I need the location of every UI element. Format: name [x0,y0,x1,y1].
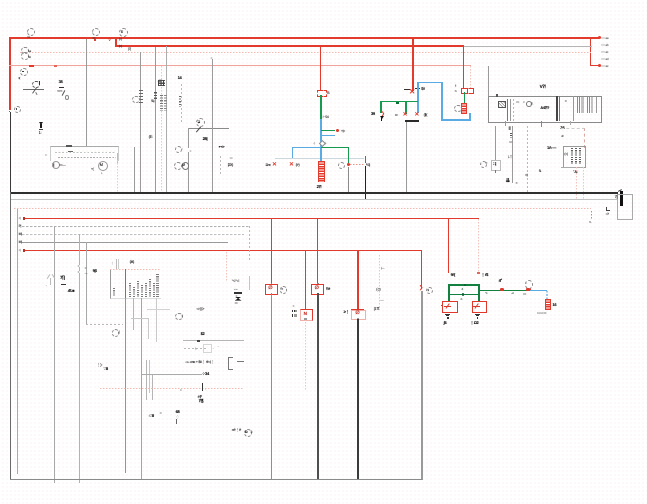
connector circle above switch [196,118,205,127]
pin list text columns [125,269,126,298]
wire: black vertical x365 crossing separator [365,166,366,200]
wire: vertical x188 upper [188,128,189,148]
fuse F1 circle [32,81,39,88]
ground below RL1 [445,314,450,315]
motor M1 circle [52,161,60,169]
cluster AE [68,289,75,293]
arrows up down on x512 [508,155,512,159]
wire: dashed vertical x181 with text [181,84,182,122]
label: 28 [203,137,208,141]
connector block 2| [491,160,501,171]
connector circle T2 [92,28,100,36]
right connector box frame [617,194,633,220]
wire: vertical x495.5 below U1 [495,126,496,160]
switch S1 line with slash [23,89,44,90]
wire: green vertical below fuse F2 [320,95,321,119]
connector circle mid [132,96,140,104]
blue rail to element [530,290,547,291]
connector circle T4 [20,68,28,76]
crossed connector X4 [414,113,419,119]
wire: vertical x212 [212,59,213,193]
wire: left border black lower part of top section [10,112,11,193]
wire: pink dashed vertical x117 [117,160,118,193]
wire: black vertical below F5 [357,318,359,319]
wire: dashed gray vertical end of P line [249,226,250,260]
label 9b [93,269,97,273]
wire: green drop x380 with arrow [380,101,382,113]
circle cluster at 178,315 [175,313,182,320]
wire: dashed corner horizontal y324 [86,324,123,325]
wire: lower left border [10,192,11,480]
node: red bowtie X at 413,92 [409,89,415,95]
label V? above ECU [540,85,546,89]
connector text box with pin list [110,269,161,299]
wire: bus A right stub top [591,37,599,38]
connector circle T1 [27,28,35,36]
gray feed line M2 [22,242,228,243]
wire: green horizontal at y147 [321,147,349,148]
label A? mid right [547,146,556,150]
wire: gray vertical x488.5 [488,66,489,96]
pink dashed vertical x226.5 [226,252,227,282]
wire: red bus B horizontal [115,45,464,47]
wire: short vertical x156 below pin box [156,298,157,342]
U1 internals [498,101,506,108]
wire: thin pink rail [9,65,471,66]
pink dashed horizontal y388.5 [100,388,243,389]
fuse F5 with top bar [351,309,363,311]
relay diode box RL2 [472,301,487,313]
crossed connector X1 [272,163,277,169]
wire: step down from bus A to bus B [115,37,117,46]
short vertical x248.8 [249,276,250,290]
connector pair red at 463-472,88-92 [461,88,468,95]
fuse F2 box [317,90,327,97]
heater element striped (left column) [318,161,324,182]
wire: horizontal y309 right of box [147,309,170,310]
component cluster 38 [59,80,63,84]
relay N box [300,309,314,321]
relay K1 lower circle [21,52,28,59]
cluster 10 [198,395,202,399]
cluster 52 with lines [201,332,205,336]
wire: short dashed vertical x220 [220,156,221,176]
wire: vertical x140 with component marks [140,52,141,193]
node: red chevron on bus A [109,37,111,43]
switch S2 horizontal with slash [188,128,229,129]
wire: blue vertical x321 [320,119,322,161]
fuse F3 box [265,284,278,294]
node: red terminal at 348,164 [347,163,350,166]
label 34 [202,372,209,376]
text row with bracket [185,360,214,364]
wire: vertical x79.5 with breaks [79,234,80,483]
sensor terminal red dot 1 [500,288,503,291]
label cluster left column [158,80,165,86]
wire: green vertical x464.5 [464,92,465,103]
heater element striped right [461,103,467,114]
tiny text row below element [537,311,546,315]
wire: red drop x448.6 from bus1 [448,219,449,273]
heater element striped lower right [545,299,551,310]
wire: horizontal y374 [142,374,202,375]
ground below RL2 [475,314,480,315]
cluster 60 with circle [232,428,241,432]
wire: gray vertical x406.5 to separator [406,122,407,193]
relay diode box RL1 [442,301,457,313]
cluster (|)58 [97,363,103,367]
small symbol x591 [591,211,592,220]
wire: lower inner border [17,209,18,474]
connector box 24 top right [560,126,564,130]
wire: bus A right stub bottom [591,65,599,66]
wire: green horizontal y101 [380,101,418,102]
wire: red drop x317.5 from bus1 [317,219,318,285]
wire: box right edge vertical [117,153,118,163]
separator end hook [618,189,622,192]
green vertical left [448,284,450,301]
label: symbol E cluster [149,135,153,139]
wire: red drop bus B x463.5 [463,46,464,88]
green rail A [448,284,479,285]
crossed connector X2 [289,163,294,169]
separator: black horizontal between sections [10,192,618,193]
wire: red drop x271.5 from bus1 [271,219,272,285]
wire: pink dashed vertical x160.5 [161,66,162,193]
fuse F4 box [311,284,324,294]
wire: gray line under bus B right part [463,46,592,47]
connector circle left of element [454,105,461,112]
bold terminal bar right [620,191,622,207]
wire: blue hook path [417,82,418,113]
wires below pin box [125,298,126,473]
fuse drop from bus B at x320 [320,46,321,91]
wire: red drop bus2 corner x421.7 [421,251,422,289]
wire: pink dashed rail [20,52,591,53]
label 70 [60,276,65,280]
wire: vertical from y318 corner [148,318,149,339]
ground G1 triangle [39,122,43,125]
cluster -88 [149,414,154,418]
U1 pin stubs below [505,121,506,126]
wire: red left border vertical drop [9,37,11,110]
mark crossing dashes [202,383,203,391]
label 36 below relay box [573,170,577,174]
label: 2 lambda circle [228,163,233,167]
red bus 1 lower [23,218,479,220]
wire: pink dashed drop x478.5 [478,219,479,273]
nested box lines mid-left [131,318,148,319]
connector circle right of section [480,161,487,168]
wire: gray vertical below F3 [271,293,272,479]
gray feed line P [22,226,249,227]
wire: green drop x406 [405,101,407,114]
wire: pink dashed horizontal y208.6 [14,208,591,209]
wire: pink dashed below N box [305,319,306,390]
node: small red mark on pink rail [54,65,57,67]
label 102 [470,321,478,325]
wire: vertical x86 [86,39,87,146]
label: text column beside x165 [160,95,163,111]
dashes row at 197-218,308 [197,307,205,311]
node: red plus below T2 [94,39,97,42]
label right of F4 [326,287,330,291]
node circle at left border [14,106,21,113]
wire: pink dashed drop x470.5 [470,66,471,88]
green vertical right [478,284,480,301]
wire: left border red fades to dark [9,103,10,112]
node: stub arrow bottom [598,64,601,67]
wire: pink dashed verticals below relay box [576,167,577,200]
label left of F5 [344,310,350,314]
relay K1 upper circle [21,47,28,54]
antenna Y symbol [49,278,52,286]
wire: red drop x305.5 from bus2 [305,251,306,309]
wire: red bus A horizontal [9,37,591,39]
wire: thick red drop x413 [412,38,414,91]
wire: blue stub [321,135,335,136]
cluster 68 [176,410,180,414]
wire: green stub with red terminal [321,130,335,131]
wire: gray thick vertical below 421 [421,291,423,479]
small mark x541 [539,169,542,173]
connector pair on x512 [509,126,511,130]
wire: dark vertical below F4 [317,293,319,479]
label 64 [444,321,447,325]
wire: dashed vertical x527.5 [527,126,528,193]
wire: green vertical x348.5 [348,147,349,163]
motor circles (1)M [174,162,182,170]
connector row under red drop [404,89,410,90]
wire: red dotted connector row [350,164,364,165]
label cluster left of N [292,310,298,312]
label 16 [552,303,556,307]
short verticals to hline374 [146,360,147,400]
connector circle T3 [119,28,128,37]
wire: sky blue from cross pair [292,147,293,158]
diode cluster [219,145,225,149]
wire: bus A right end drop [590,37,592,66]
wire: long gray horizontal below separator [10,199,617,200]
heater box dashed [50,146,119,161]
wire: vertical x512.5 below U1 [512,126,513,183]
lamp circle (0| [175,146,183,154]
connector circle at 341,164 [338,162,346,170]
circle cluster at 115,332 [112,329,120,337]
red arrow terminal at 421,289 [419,286,423,292]
motor M2 circle [98,161,108,171]
wire: red thick drop x357.5 from bus2 [357,251,359,309]
label: destination ticks right edge [601,36,608,40]
red bus 2 lower [23,250,422,252]
node: junction diamond on blue [319,140,326,147]
wire: vertical x134 [134,147,135,193]
wire: vertical x86.5 to box corner [86,242,87,324]
node: stub arrow top [598,36,601,39]
label: 14 above dashed vertical [178,76,182,80]
bottom boundary line [10,479,422,480]
blue dashes down [546,291,547,299]
green rail B to sensors [478,290,529,291]
wire: vertical x155 with component marks [155,47,156,193]
wire: vertical x188 lower [188,152,189,193]
wire: pale interconnect line [275,158,364,159]
wire: green stub above black main [365,156,367,163]
wire: pink dashed vertical x379.5 [379,255,380,310]
wire: vertical x54.5 [54,226,55,483]
node: red highlight on pink rail [29,65,34,67]
wire: gray vertical below 348 [348,167,349,193]
relay box right with pin text [563,146,586,168]
chain component at 237,279-304 [232,279,240,283]
ECU box U1 [488,96,602,124]
connector circle right of F3 [280,286,288,294]
gray feed line M1 [22,234,244,235]
bold double arrows at bottom x512 [506,179,510,183]
sensor terminal red dot 2 with circle above [526,288,530,292]
crossed connector X3 [403,113,408,119]
wire: vertical x165.5 [166,46,167,193]
connector bar under X3 X4 [405,120,419,122]
label (A) top [130,260,134,264]
green rail C [448,294,479,295]
ground lug inside right box [606,207,610,211]
